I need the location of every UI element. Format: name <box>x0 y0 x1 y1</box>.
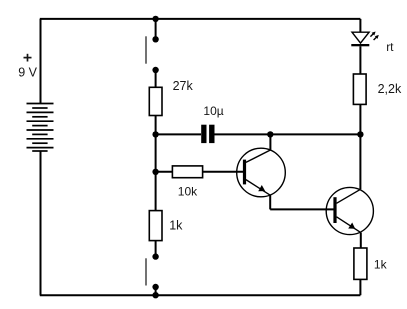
node bottom rail junction <box>152 292 158 298</box>
svg-text:1k: 1k <box>374 258 388 272</box>
switch S1 bottom contact <box>152 67 158 73</box>
wire 10k to Q1 base <box>203 171 244 173</box>
battery B1 9V <box>27 104 54 152</box>
node D right column junction <box>357 131 363 137</box>
node A capacitor branch <box>152 131 158 137</box>
wire node A to capacitor <box>156 133 201 135</box>
wire battery negative lead <box>40 151 42 295</box>
resistor R1 27k <box>149 87 162 115</box>
wire top rail to switch S1 <box>155 19 157 39</box>
transistor Q1 <box>237 148 286 197</box>
svg-text:27k: 27k <box>173 79 194 93</box>
wire LED to resistor 2,2k <box>359 46 361 74</box>
switch S2 top contact <box>152 253 158 259</box>
resistor R2 1k <box>149 211 162 241</box>
wire top rail <box>40 18 361 20</box>
wire node C to node D <box>270 133 360 135</box>
LED D1 <box>351 32 369 46</box>
switch S2 bottom contact <box>152 284 158 290</box>
wire 27k to node A <box>155 116 157 135</box>
wire switch S1 to resistor 27k <box>155 70 157 87</box>
node top rail junction <box>152 16 158 22</box>
transistor Q2 <box>326 187 373 234</box>
label battery plus sign <box>24 54 32 62</box>
resistor R3 10k <box>172 166 202 178</box>
svg-text:10µ: 10µ <box>203 104 223 118</box>
resistor R5 1k <box>354 248 367 279</box>
wire node D to Q2 collector <box>359 134 361 189</box>
wire battery positive lead <box>40 19 42 104</box>
wire 1k to switch S2 <box>155 241 157 257</box>
wire Q1 emitter down <box>269 195 271 209</box>
wire Q2 emitter to resistor 1k <box>360 233 362 248</box>
wire 1k to bottom rail <box>359 279 361 295</box>
wire node A to node B <box>155 134 157 171</box>
wire node B to resistor 10k <box>156 171 173 173</box>
wire 2,2k to node D <box>359 104 361 134</box>
switch S1 top contact <box>152 36 158 42</box>
wire bottom rail <box>40 294 361 296</box>
switch S2 lever <box>145 258 147 285</box>
node B 10k branch <box>152 169 158 175</box>
capacitor C1 10u <box>201 125 214 143</box>
svg-text:9 V: 9 V <box>18 66 37 80</box>
svg-text:2,2k: 2,2k <box>378 82 402 96</box>
node C Q1 collector junction <box>267 131 273 137</box>
wire node B to resistor 1k <box>155 172 157 211</box>
wire capacitor to node C <box>215 133 271 135</box>
switch S1 lever <box>145 36 147 63</box>
svg-text:1k: 1k <box>169 219 183 233</box>
wire top rail to LED <box>359 19 361 32</box>
svg-text:rt: rt <box>386 40 394 54</box>
wire switch S2 to bottom rail <box>155 287 157 295</box>
wire Q1 emitter to Q2 base <box>270 208 333 210</box>
LED light arrow 1 <box>370 32 375 37</box>
svg-text:10k: 10k <box>178 185 198 199</box>
wire Q1 collector to node C <box>269 134 271 150</box>
resistor R4 2,2k <box>353 74 366 104</box>
LED light arrow 2 <box>374 35 379 40</box>
